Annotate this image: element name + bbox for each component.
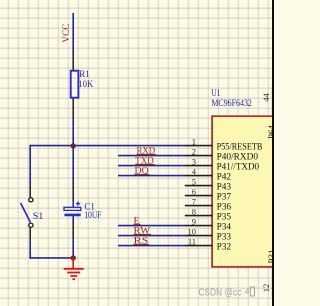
svg-text:8: 8 <box>192 206 196 216</box>
ground <box>72 258 74 268</box>
svg-text:5: 5 <box>192 176 196 186</box>
svg-text:S1: S1 <box>33 211 44 221</box>
svg-text:1: 1 <box>192 136 196 146</box>
node bottom junction <box>71 255 76 260</box>
svg-text:10UF: 10UF <box>84 210 101 220</box>
wire R1 bottom to junction <box>72 118 74 146</box>
svg-text:MC96F6432: MC96F6432 <box>211 98 252 108</box>
svg-text:11: 11 <box>188 236 196 246</box>
wire net DQ <box>118 175 185 177</box>
wire S1 to bottom rail <box>29 238 31 259</box>
svg-text:6: 6 <box>192 186 196 196</box>
wire net TXD <box>118 165 185 167</box>
svg-text:2: 2 <box>192 146 196 156</box>
svg-text:P33: P33 <box>217 232 232 242</box>
pin 2 P40/RXD0 <box>185 155 213 157</box>
switch S1 <box>29 187 31 197</box>
pin 6 P37 <box>185 195 213 197</box>
svg-text:4: 4 <box>245 288 250 297</box>
IC U1 MC96F6432 body <box>212 116 276 267</box>
pin 11 P32 <box>185 245 213 247</box>
power port VCC <box>72 13 74 51</box>
svg-text:7: 7 <box>192 196 196 206</box>
pin 12 P31 <box>272 267 274 297</box>
svg-text:12: 12 <box>261 284 271 293</box>
pin 9 P34 <box>185 225 213 227</box>
svg-text:P36: P36 <box>217 202 232 212</box>
svg-text:P42: P42 <box>217 172 232 182</box>
wire net RW <box>118 235 185 237</box>
svg-text:P55/RESETB: P55/RESETB <box>217 142 263 152</box>
svg-text:P34: P34 <box>217 222 232 232</box>
pin 1 P55/RESETB <box>185 145 213 147</box>
wire net RS <box>118 245 185 247</box>
svg-text:10K: 10K <box>78 79 93 89</box>
wire net RXD <box>118 155 185 157</box>
pin 4 P42 <box>185 175 213 177</box>
pin 3 P41//TXD0 <box>185 165 213 167</box>
pin 5 P43 <box>185 185 213 187</box>
svg-text:P37: P37 <box>217 192 232 202</box>
capacitor C1 <box>72 178 74 202</box>
svg-text:P41//TXD0: P41//TXD0 <box>217 162 260 172</box>
svg-text:U1: U1 <box>211 88 220 98</box>
svg-text:P32: P32 <box>217 242 232 252</box>
wire down to S1 <box>29 145 31 188</box>
pin 44 P64 <box>272 87 274 117</box>
svg-text:P40/RXD0: P40/RXD0 <box>217 152 259 162</box>
pin 7 P36 <box>185 205 213 207</box>
resistor R1 <box>72 50 74 71</box>
wire C1 to bottom junction <box>72 238 74 259</box>
svg-text:10: 10 <box>188 226 197 236</box>
wire junction to C1 <box>72 146 74 179</box>
svg-text:9: 9 <box>192 216 196 226</box>
svg-text:P43: P43 <box>217 182 232 192</box>
svg-text:44: 44 <box>261 93 271 102</box>
svg-text:3: 3 <box>192 156 196 166</box>
wire bottom rail <box>29 257 73 259</box>
svg-text:CSDN @cc: CSDN @cc <box>199 287 242 299</box>
svg-text:VCC: VCC <box>62 24 72 43</box>
pin 8 P35 <box>185 215 213 217</box>
pin 10 P33 <box>185 235 213 237</box>
svg-text:R1: R1 <box>79 69 90 79</box>
svg-text:P35: P35 <box>217 212 232 222</box>
wire junction to pin1 <box>30 145 186 147</box>
wire net E <box>118 225 185 227</box>
node junction reset-net <box>71 143 76 148</box>
